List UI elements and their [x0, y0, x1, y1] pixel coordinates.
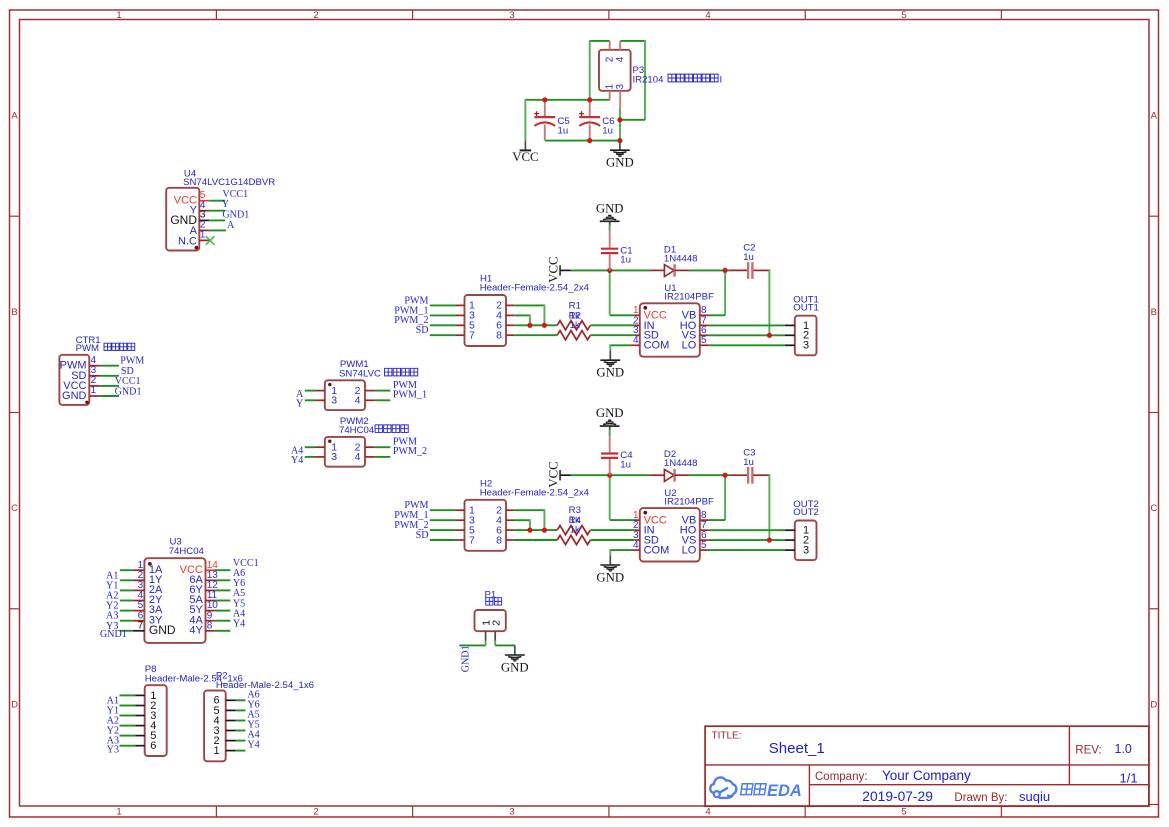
connector OUT2	[785, 521, 817, 561]
svg-text:5: 5	[901, 10, 906, 21]
svg-text:GND: GND	[149, 623, 176, 637]
svg-text:Y: Y	[296, 399, 304, 410]
wire inputs to H2	[430, 510, 456, 540]
svg-text:GND: GND	[596, 366, 624, 380]
svg-text:OUT2: OUT2	[793, 507, 819, 518]
wire R1 to IN, R2 to SD	[591, 325, 635, 335]
svg-text:D: D	[1150, 700, 1157, 711]
wire H1 pin8 to R2	[514, 334, 557, 336]
connector OUT1	[785, 316, 817, 356]
diode D1 1N4448	[649, 264, 689, 277]
svg-text:3: 3	[509, 807, 514, 818]
capacitor C2	[729, 262, 769, 279]
no-connect X on U4 pin 1	[206, 236, 215, 245]
svg-text:GND: GND	[606, 156, 634, 170]
svg-text:4: 4	[705, 10, 710, 21]
svg-text:Header-Female-2.54_2x4: Header-Female-2.54_2x4	[480, 487, 590, 498]
svg-text:4Y: 4Y	[189, 624, 203, 636]
svg-text:COM: COM	[644, 340, 670, 352]
svg-text:1k: 1k	[570, 320, 580, 331]
svg-text:4: 4	[615, 56, 626, 62]
svg-text:74HC04: 74HC04	[339, 425, 375, 436]
svg-text:IR2104: IR2104	[633, 74, 665, 85]
IC U3 74HC04	[120, 558, 230, 643]
svg-text:6: 6	[150, 740, 156, 752]
svg-text:LO: LO	[682, 340, 697, 352]
label P1 value common-ground	[486, 598, 493, 605]
svg-text:GND: GND	[596, 570, 624, 584]
svg-text:4: 4	[355, 395, 361, 407]
svg-text:1: 1	[214, 745, 220, 757]
svg-text:LO: LO	[682, 545, 697, 557]
capacitor C3	[729, 467, 769, 484]
svg-text:2: 2	[313, 807, 318, 818]
connector P3	[599, 41, 631, 108]
wire H2 pin2/pin4 jumpers to IN	[514, 509, 557, 533]
resistor R4 1k	[557, 535, 590, 544]
wire C2 to VS	[768, 269, 770, 335]
wire inputs to H1	[430, 305, 456, 335]
diode D2 1N4448	[649, 469, 689, 482]
svg-text:5: 5	[701, 335, 707, 346]
connector H1 Header-Female-2.54_2x4	[456, 295, 514, 346]
svg-text:5: 5	[901, 807, 906, 818]
svg-text:1: 1	[91, 385, 97, 396]
svg-text:GND: GND	[596, 406, 624, 420]
svg-text:GND1: GND1	[100, 629, 127, 640]
label R1 value 1k overlapped with R2 refdes	[569, 310, 581, 321]
svg-text:B: B	[1151, 307, 1157, 318]
ground GND (top)	[606, 141, 634, 170]
svg-text:A: A	[227, 220, 235, 231]
svg-text:Your Company: Your Company	[882, 768, 971, 783]
svg-text:3: 3	[509, 10, 514, 21]
svg-text:3: 3	[803, 545, 809, 557]
IC U4 SN74LVC1G14DBVR inverter	[166, 188, 226, 251]
svg-text:7: 7	[138, 620, 144, 631]
svg-text:8: 8	[496, 534, 502, 546]
svg-text:1k: 1k	[570, 525, 580, 536]
svg-text:Sheet_1: Sheet_1	[769, 740, 825, 757]
wire H1 pin2/pin4 jumpers to IN	[514, 304, 557, 328]
wire COM to ground	[610, 344, 635, 350]
svg-text:7: 7	[469, 330, 475, 342]
wire VCC rail to D2 and U2 VCC	[571, 473, 650, 520]
IC U1 IR2104PBF	[633, 303, 709, 356]
svg-text:1u: 1u	[743, 252, 754, 263]
svg-text:Company:: Company:	[815, 771, 867, 783]
wire D1 cathode to C2 and VB	[689, 268, 729, 316]
connector P1 common ground	[475, 610, 506, 641]
svg-text:PWM_2: PWM_2	[393, 446, 427, 457]
wire HO/VS/LO to OUT1	[709, 325, 785, 345]
label PWM1 value	[339, 368, 418, 379]
connector PWM1	[305, 380, 391, 410]
ground GND (below U1)	[596, 351, 624, 380]
svg-text:C: C	[1150, 503, 1157, 514]
svg-text:Y4: Y4	[247, 740, 259, 751]
ground GND (P1)	[501, 645, 529, 674]
svg-text:SN74LVC: SN74LVC	[339, 368, 381, 379]
connector CTR1 PWM signal input	[59, 355, 119, 405]
svg-text:1u: 1u	[620, 255, 631, 266]
svg-text:GND1: GND1	[461, 645, 472, 672]
svg-text:1u: 1u	[743, 457, 754, 468]
svg-text:A: A	[11, 111, 18, 122]
label R3 value 1k overlapped with R4 refdes	[569, 515, 582, 526]
svg-text:1: 1	[116, 10, 121, 21]
connector P8 Header-Male-2.54_1x6	[120, 685, 167, 756]
svg-text:1N4448: 1N4448	[664, 458, 698, 469]
svg-text:1: 1	[116, 807, 121, 818]
connector P2 Header-Male-2.54_1x6	[204, 691, 245, 762]
wire GND from P1 pin2	[495, 641, 515, 646]
svg-text:2019-07-29: 2019-07-29	[862, 789, 933, 804]
svg-text:A: A	[1151, 111, 1158, 122]
svg-text:4: 4	[705, 807, 710, 818]
label P3 value IR2104 drive power input	[633, 74, 723, 85]
svg-text:1/1: 1/1	[1120, 770, 1138, 785]
svg-text:C: C	[11, 503, 18, 514]
wire H2 pin8 to R4	[514, 539, 557, 541]
svg-text:suqiu: suqiu	[1019, 789, 1050, 804]
svg-text:74HC04: 74HC04	[169, 546, 205, 557]
capacitor C1	[601, 231, 618, 271]
resistor R1 1k	[557, 321, 590, 330]
svg-text:3: 3	[803, 340, 809, 352]
capacitor C6	[579, 100, 600, 141]
connector PWM2	[305, 437, 391, 467]
svg-text:SN74LVC1G14DBVR: SN74LVC1G14DBVR	[183, 177, 275, 188]
svg-text:1u: 1u	[602, 126, 613, 137]
svg-text:OUT1: OUT1	[793, 302, 819, 313]
svg-text:B: B	[11, 307, 17, 318]
svg-text:4: 4	[355, 451, 361, 463]
svg-text:Y3: Y3	[107, 745, 119, 756]
svg-text:D: D	[11, 700, 18, 711]
svg-text:GND: GND	[501, 660, 529, 674]
svg-text:GND1: GND1	[115, 386, 142, 397]
svg-text:GND: GND	[596, 201, 624, 215]
EasyEDA (LCEDA) logo	[710, 777, 802, 800]
svg-text:1.0: 1.0	[1115, 742, 1132, 756]
svg-text:COM: COM	[644, 545, 670, 557]
IC U2 IR2104PBF	[633, 508, 709, 561]
wire VCC rail to D1 and U1 VCC	[571, 268, 650, 316]
svg-text:1N4448: 1N4448	[664, 253, 698, 264]
wire HO/VS/LO to OUT2	[709, 530, 785, 550]
svg-text:Header-Female-2.54_2x4: Header-Female-2.54_2x4	[480, 283, 590, 294]
svg-text:2: 2	[313, 10, 318, 21]
svg-text:VCC: VCC	[512, 150, 538, 164]
svg-text:GND1: GND1	[222, 209, 249, 220]
svg-text:2: 2	[491, 620, 503, 626]
svg-text:SD: SD	[416, 530, 429, 541]
svg-text:1u: 1u	[620, 459, 631, 470]
wire R3 to IN, R4 to SD	[591, 530, 635, 540]
resistor R3 1k	[557, 526, 590, 535]
svg-text:3: 3	[615, 84, 626, 90]
power VCC flag (rail U1)	[546, 256, 570, 282]
junction dots top block	[542, 97, 622, 143]
svg-text:N.C: N.C	[178, 235, 197, 247]
svg-text:GND: GND	[62, 390, 87, 402]
svg-text:7: 7	[469, 534, 475, 546]
svg-text:2: 2	[604, 56, 615, 62]
svg-text:3: 3	[331, 451, 337, 463]
svg-text:1: 1	[604, 84, 615, 90]
svg-text:SD: SD	[416, 325, 429, 336]
svg-text:5: 5	[701, 540, 707, 551]
svg-text:TITLE:: TITLE:	[712, 731, 742, 742]
svg-text:PWM: PWM	[76, 343, 99, 354]
svg-text:8: 8	[496, 330, 502, 342]
svg-text:IR2104PBF: IR2104PBF	[664, 292, 714, 303]
resistor R2 1k	[557, 331, 590, 340]
title block	[705, 726, 1158, 806]
svg-text:VCC: VCC	[546, 461, 560, 487]
svg-text:Y4: Y4	[291, 455, 303, 466]
wire COM to ground	[610, 549, 635, 555]
connector H2 Header-Female-2.54_2x4	[456, 500, 514, 551]
ground GND (above C1)	[596, 201, 624, 231]
svg-text:PWM_1: PWM_1	[393, 390, 427, 401]
svg-text:1: 1	[200, 230, 206, 241]
svg-text:1u: 1u	[558, 126, 569, 137]
power VCC flag (top)	[512, 141, 538, 165]
svg-text:Header-Male-2.54_1x6: Header-Male-2.54_1x6	[216, 680, 314, 691]
ground GND (below U2)	[596, 555, 624, 584]
capacitor C4	[601, 435, 618, 475]
label CTR1 value PWM signal input	[76, 343, 135, 354]
svg-text:Y4: Y4	[233, 619, 245, 630]
wire C3 to VS	[768, 474, 770, 540]
wire GND1 from P1 pin1	[459, 641, 485, 646]
svg-text:EDA: EDA	[767, 782, 802, 800]
svg-text:IR2104PBF: IR2104PBF	[664, 497, 714, 508]
power VCC flag (rail U2)	[546, 461, 570, 487]
svg-text:I: I	[720, 74, 723, 85]
svg-text:VCC: VCC	[546, 256, 560, 282]
wire net VCC (P3 top loop and filter rail)	[525, 40, 645, 141]
svg-text:8: 8	[207, 620, 213, 631]
capacitor C5	[534, 100, 555, 141]
svg-text:Drawn By:: Drawn By:	[954, 792, 1007, 804]
svg-text:REV:: REV:	[1075, 744, 1101, 756]
wire D2 cathode to C3 and VB	[689, 473, 729, 520]
svg-text:3: 3	[331, 395, 337, 407]
label PWM2 value	[339, 425, 408, 436]
ground GND (above C4)	[596, 406, 624, 436]
